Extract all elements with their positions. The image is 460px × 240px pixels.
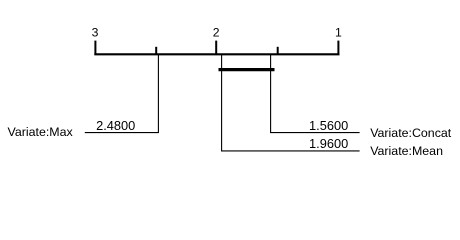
svg-text:1: 1 (335, 26, 342, 40)
svg-text:Variate:Max: Variate:Max (8, 125, 74, 139)
connector line Variate:Mean (rank 1.96) (222, 55, 360, 151)
major tick at rank 2 (215, 41, 217, 55)
minor tick at rank 2.5 (155, 47, 157, 55)
connector line Variate:Max (rank 2.48) (85, 55, 159, 133)
connector line Variate:Concat (rank 1.56) (271, 55, 360, 133)
svg-text:1.5600: 1.5600 (309, 118, 348, 133)
clique bar connecting Variate:Mean and Variate:Concat (219, 68, 275, 71)
svg-text:Variate:Concat: Variate:Concat (370, 126, 452, 140)
axis main line (94, 53, 339, 55)
svg-text:1.9600: 1.9600 (309, 136, 348, 151)
svg-text:2: 2 (213, 26, 220, 40)
svg-text:2.4800: 2.4800 (96, 118, 135, 133)
major tick at rank 1 (337, 41, 339, 55)
svg-text:Variate:Mean: Variate:Mean (370, 144, 443, 158)
major tick at rank 3 (94, 41, 96, 55)
minor tick at rank 1.5 (277, 47, 279, 55)
svg-text:3: 3 (92, 26, 99, 40)
